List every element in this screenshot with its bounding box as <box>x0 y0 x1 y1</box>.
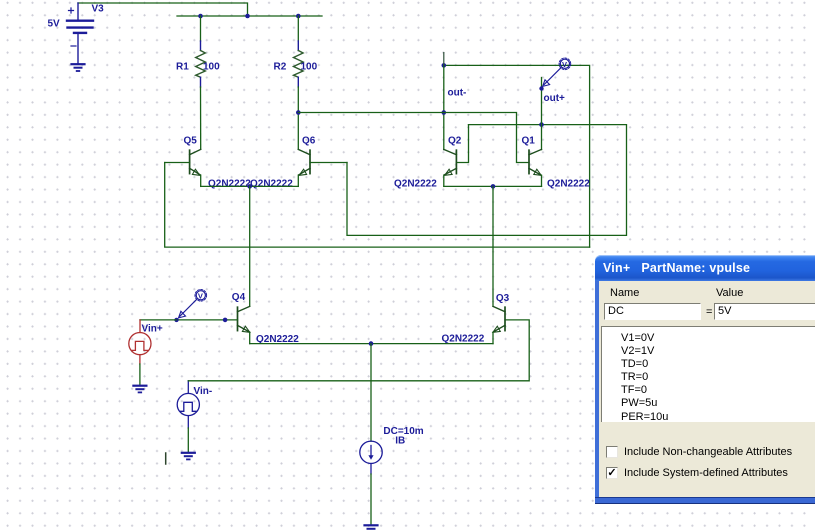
wire Q5 base left <box>165 162 190 164</box>
wire Q2 emitter <box>443 175 445 186</box>
ground Vin+ <box>133 386 146 393</box>
svg-text:100: 100 <box>203 62 220 73</box>
svg-text:Q2N2222: Q2N2222 <box>442 333 485 344</box>
checkbox system-defined (checked) <box>606 467 618 479</box>
wire R2 bottom to Q6 collector <box>297 77 299 87</box>
junction emitter bus Q1Q2 <box>491 184 496 189</box>
label Value <box>716 287 743 299</box>
dialog title bar <box>595 255 815 281</box>
svg-text:Vin+: Vin+ <box>142 324 163 335</box>
svg-text:Q2N2222: Q2N2222 <box>394 179 437 190</box>
wire Vin+ to ground <box>139 364 141 385</box>
wire Q6 base right <box>310 162 347 164</box>
source Vin+ (vpulse, selected red) <box>129 320 151 364</box>
svg-text:Vin-: Vin- <box>194 386 213 397</box>
wire bus down to Q3 collector <box>492 186 494 306</box>
svg-text:Q4: Q4 <box>232 292 246 303</box>
voltage marker V at out+ <box>543 58 571 86</box>
wire Q2 base link to Q1 collector <box>456 125 468 163</box>
svg-text:Q1: Q1 <box>522 136 536 147</box>
svg-text:R2: R2 <box>274 62 287 73</box>
current source IB <box>360 441 382 474</box>
voltage marker V at Vin+ <box>179 290 207 318</box>
wire IB to ground <box>370 474 372 525</box>
junction emitter bus IB <box>369 341 374 346</box>
textbox Name DC <box>604 303 701 320</box>
wire Q4 base <box>177 319 238 321</box>
junction R2 top <box>296 14 301 19</box>
wire Q1 emitter <box>541 175 543 186</box>
svg-text:Q5: Q5 <box>184 136 198 147</box>
resistor R2 <box>294 51 304 78</box>
svg-text:Q2N2222: Q2N2222 <box>547 179 590 190</box>
svg-text:Q2N2222: Q2N2222 <box>208 179 251 190</box>
junction marker pin out+ <box>539 86 543 90</box>
dialog left border <box>595 281 599 497</box>
checkbox non-changeable <box>606 446 618 458</box>
junction emitter bus Q5Q6 <box>247 184 252 189</box>
svg-text:out-: out- <box>448 88 467 99</box>
svg-text:V: V <box>562 60 567 69</box>
transistor Q2 <box>444 149 457 175</box>
svg-text:Q2N2222: Q2N2222 <box>250 179 293 190</box>
wire Q5 base to out- net (left down right) <box>165 163 590 248</box>
resistor R1 <box>196 51 206 78</box>
dialog bottom border <box>595 497 815 504</box>
svg-text:Q2: Q2 <box>448 136 462 147</box>
junction out- top <box>442 63 447 68</box>
wire R1 bottom to Q5 collector <box>200 77 202 87</box>
wire Q4 emitter <box>249 332 251 343</box>
svg-text:V3: V3 <box>92 4 105 15</box>
wire bus down to IB <box>370 344 372 442</box>
wire VCC rail <box>177 15 322 17</box>
wire out- stub <box>443 53 445 66</box>
listbox attributes <box>601 326 815 422</box>
junction marker pin Vin+ <box>174 318 178 322</box>
wire bus down to Q4 collector <box>249 186 251 306</box>
source Vin- (vpulse) <box>177 381 199 428</box>
transistor Q4 <box>238 306 250 332</box>
dialog window Vin+ PartName: vpulse <box>595 255 815 504</box>
transistor Q1 <box>529 149 542 175</box>
wire Q5-Q6 emitter bus <box>201 185 299 187</box>
battery V3 <box>67 3 93 64</box>
stray text cursor tick <box>165 453 167 464</box>
svg-text:IB: IB <box>395 436 405 447</box>
wire Q4-Q3 emitter bus <box>250 343 493 345</box>
transistor Q6 <box>298 149 310 175</box>
ground V3 <box>72 64 85 71</box>
wire R1 top lead <box>200 16 202 41</box>
label Include Non-changeable Attributes <box>624 446 792 458</box>
svg-text:100: 100 <box>301 62 318 73</box>
wire Q6 base to out+ net (down right up left) <box>347 125 627 236</box>
svg-text:V: V <box>198 292 203 301</box>
wire out- cross link to Q1 base <box>298 113 529 163</box>
junction V3 rail <box>245 14 250 19</box>
ground IB <box>365 525 378 529</box>
wire Vin- to Q3 base net <box>188 320 529 381</box>
wire Q5 emitter <box>200 175 202 186</box>
wire Vin+ to Q4 base <box>140 319 177 321</box>
label Include System-defined Attributes <box>624 467 788 479</box>
junction Q4 base <box>223 318 228 323</box>
dialog body panel <box>599 281 815 497</box>
svg-text:out+: out+ <box>544 93 566 104</box>
ground Vin- <box>182 453 195 460</box>
wire out- vertical (Q2 collector) <box>443 65 445 149</box>
junction Q1 collector node <box>539 122 544 127</box>
wire Q1-Q2 emitter bus <box>444 185 542 187</box>
wire VCC top from V3 to rail <box>78 3 248 16</box>
wire R2 top lead <box>297 16 299 41</box>
svg-text:R1: R1 <box>176 62 189 73</box>
svg-text:Q6: Q6 <box>302 136 316 147</box>
transistor Q5 <box>190 149 201 175</box>
svg-text:5V: 5V <box>48 19 61 30</box>
wire out+ vertical (Q1 collector) <box>541 78 543 150</box>
wire out- net right riser <box>444 65 590 247</box>
label Name <box>610 287 639 299</box>
junction out- cross <box>442 110 447 115</box>
transistor Q3 <box>493 306 505 332</box>
label equals <box>706 306 712 318</box>
wire Q6 emitter <box>297 175 299 186</box>
junction R1 top <box>198 14 203 19</box>
textbox Value 5V <box>714 303 815 320</box>
wire Vin- to ground <box>187 428 189 452</box>
wire Q3 emitter <box>492 332 494 343</box>
svg-text:Q3: Q3 <box>496 293 510 304</box>
junction node out- at R2 wire <box>296 110 301 115</box>
